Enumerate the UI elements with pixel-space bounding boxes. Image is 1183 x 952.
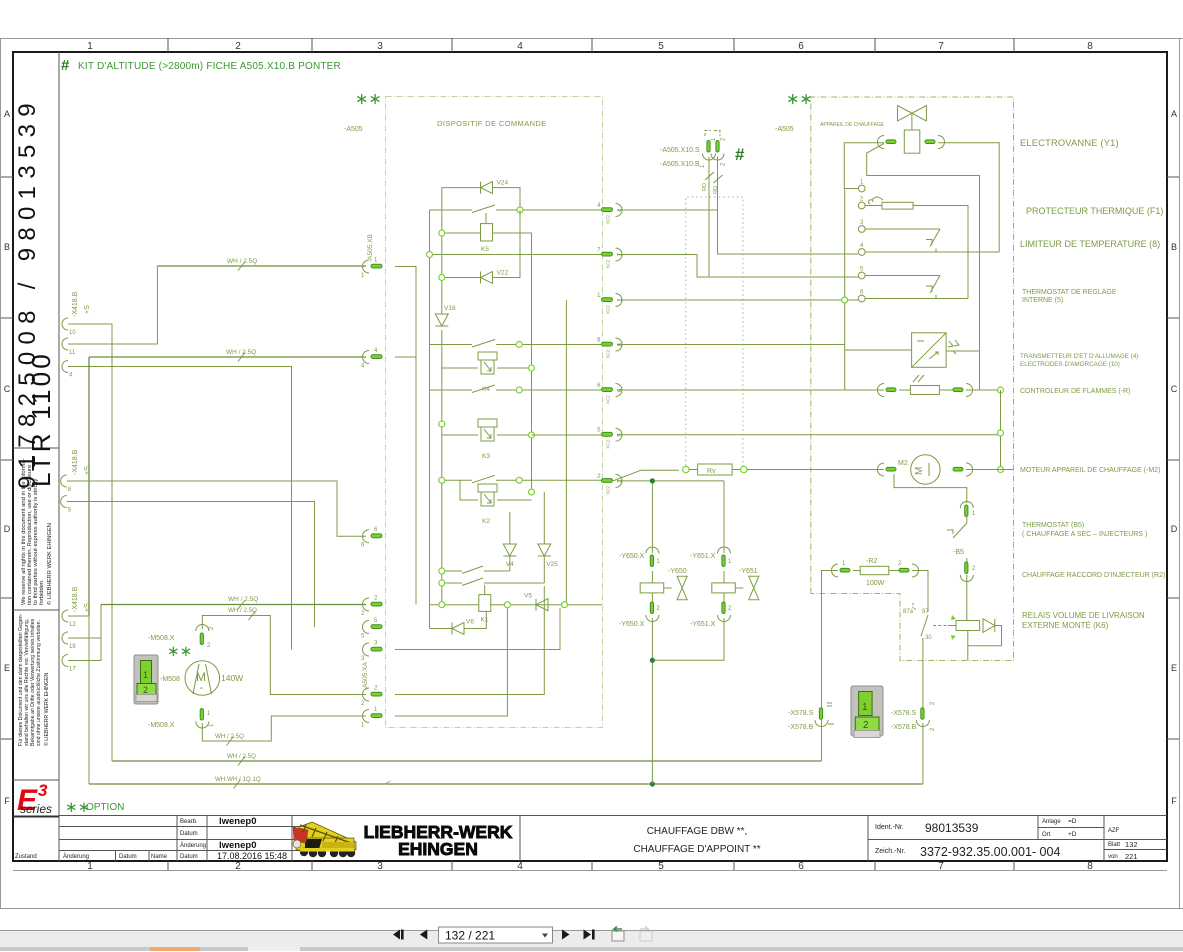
wire M2 to B5 (894, 474, 967, 503)
svg-text:6: 6 (798, 861, 804, 872)
left rail b (441, 188, 443, 605)
flame monitor resistor (878, 375, 973, 397)
svg-text:10: 10 (69, 330, 76, 336)
label RELAIS VOLUME (1022, 611, 1145, 630)
wire K4 right (497, 365, 535, 371)
svg-text:V18: V18 (444, 305, 456, 312)
sheet title (633, 826, 760, 855)
svg-text:1: 1 (87, 41, 93, 52)
relay K6 coil (933, 615, 1002, 661)
svg-text:MOTEUR APPAREIL DE CHAUFFAGE (: MOTEUR APPAREIL DE CHAUFFAGE (-M2) (1020, 467, 1160, 474)
svg-text:V22: V22 (497, 270, 509, 277)
svg-text:1: 1 (87, 861, 93, 872)
wire transmitter left (845, 349, 912, 351)
wire X418.B-10 to bus (68, 324, 112, 761)
control unit box A505 (DISPOSITIF DE COMMANDE) (386, 97, 603, 728)
rail XB1 internal (395, 267, 416, 605)
wire flame monitor out (966, 387, 1004, 393)
wire XC5 to motor rail (617, 434, 1001, 436)
svg-text:Datum: Datum (180, 854, 198, 860)
valve circuit Y650 (619, 484, 687, 785)
svg-text:Datum: Datum (180, 831, 198, 837)
svg-text:WH / 2.5Q: WH / 2.5Q (227, 258, 257, 265)
wire X418.B-12 junction (68, 615, 89, 617)
svg-text:LIMITEUR DE TEMPERATURE (8): LIMITEUR DE TEMPERATURE (8) (1020, 239, 1160, 249)
svg-text:PROTECTEUR THERMIQUE (F1): PROTECTEUR THERMIQUE (F1) (1026, 206, 1163, 216)
connector pin M508.X-2 (196, 625, 215, 649)
svg-text:-R2: -R2 (866, 558, 877, 565)
sidebar column line (13, 52, 59, 861)
sidebar german notice (18, 613, 50, 746)
svg-text:Datum: Datum (119, 854, 137, 860)
svg-text:von: von (1108, 854, 1118, 860)
svg-text:87: 87 (922, 609, 929, 615)
svg-text:-X578.B: -X578.B (891, 724, 917, 731)
svg-text:-A505: -A505 (775, 126, 794, 133)
svg-text:WH / 2.5Q: WH / 2.5Q (226, 349, 256, 356)
jumper plug A505.X10 bracket (705, 131, 720, 137)
svg-text:K5: K5 (481, 246, 489, 253)
svg-text:17: 17 (69, 667, 76, 673)
relay K4 (478, 352, 497, 393)
svg-text:XC2: XC2 (606, 215, 611, 224)
wire X418.B-5 down (67, 502, 315, 628)
fuse F1 squiggle (869, 197, 883, 204)
heater rail (842, 189, 848, 391)
svg-text:Ident.-Nr.: Ident.-Nr. (875, 824, 904, 831)
svg-text:Blatt: Blatt (1108, 842, 1120, 848)
solenoid Y1 (904, 130, 920, 153)
svg-text:6: 6 (798, 41, 804, 52)
svg-text:E: E (1171, 663, 1177, 673)
connector pin M508.X-1 (196, 709, 215, 728)
svg-text:WH / 2.5Q: WH / 2.5Q (215, 733, 244, 740)
wire XA1 internal (395, 608, 507, 716)
junction Y651 return (650, 658, 655, 663)
svg-text:-X418.B: -X418.B (72, 291, 79, 317)
connector pin A505.XA-3 (361, 641, 382, 663)
svg-text:K1: K1 (481, 617, 489, 624)
svg-text:5: 5 (658, 41, 664, 52)
svg-text:CHAUFFAGE DBW **,: CHAUFFAGE DBW **, (647, 826, 748, 837)
connector pin X418.B-11 (62, 338, 76, 356)
left ruler ticks (1, 177, 13, 739)
svg-text:-A505.XA: -A505.XA (362, 662, 369, 690)
diode V25 (538, 492, 558, 583)
connector pin A505.XB-4 (361, 348, 382, 370)
svg-text:V24: V24 (497, 180, 509, 187)
svg-text:V25: V25 (546, 561, 558, 568)
svg-text:∗∗: ∗∗ (167, 643, 192, 660)
wire R2 left to bus (822, 571, 839, 762)
toolbar prev button (420, 930, 428, 940)
svg-text:K3: K3 (482, 453, 490, 460)
svg-text:CONTROLEUR DE FLAMMES (-R): CONTROLEUR DE FLAMMES (-R) (1020, 388, 1130, 395)
bus wire WH.WH/1Q.1Q (89, 776, 923, 789)
pin Y1 right (925, 136, 945, 149)
svg-text:THERMOSTAT (B5): THERMOSTAT (B5) (1022, 522, 1084, 529)
svg-text:F: F (4, 796, 10, 806)
svg-text:-A505: -A505 (344, 126, 363, 133)
svg-text:-Y651: -Y651 (739, 568, 758, 575)
svg-text:Bearb.: Bearb. (180, 819, 198, 825)
wire R2 right to contact (912, 571, 928, 613)
connector pin A505.XA-2a (361, 596, 382, 618)
diode V5 (524, 593, 548, 611)
svg-text:98013539: 98013539 (925, 821, 979, 835)
svg-text:-X578.S: -X578.S (788, 710, 814, 717)
wire XC6 to flame monitor (617, 389, 884, 391)
svg-text:D: D (4, 524, 11, 534)
crane logo (293, 822, 356, 857)
connector pin A505.XC-2 (597, 474, 623, 495)
heater terminal 2 (858, 197, 865, 209)
svg-text:100W: 100W (866, 580, 885, 587)
wire jumper B down with RD slash (713, 157, 723, 211)
svg-text:11: 11 (69, 350, 76, 356)
svg-text:221: 221 (1125, 852, 1138, 861)
sidebar order numbers (14, 96, 41, 489)
svg-text:TRANSMETTEUR D'ET D'ALLUMAGE (: TRANSMETTEUR D'ET D'ALLUMAGE (4) (1020, 353, 1138, 360)
toolbar next button (562, 930, 570, 940)
svg-text:B: B (4, 242, 10, 252)
left rail a (429, 210, 431, 629)
svg-text:Zeich.-Nr.: Zeich.-Nr. (875, 848, 905, 855)
wire XC2 to Rv (613, 470, 679, 481)
sidebar LTR 1100 (26, 351, 56, 487)
svg-text:∗∗: ∗∗ (355, 91, 382, 108)
diode V22 (439, 210, 520, 284)
svg-text:M2: M2 (898, 460, 908, 467)
relay K3 (478, 419, 497, 460)
thermal switch limiteur (926, 229, 940, 252)
wire heater row4 (865, 251, 999, 253)
pdf viewer toolbar (0, 930, 1183, 931)
wire WH/2.5Q to A505.XB-1 (157, 258, 366, 271)
spark electrodes symbol (948, 340, 959, 354)
svg-text:-X418.B: -X418.B (72, 449, 79, 475)
connector pin A505.XC-8 (597, 338, 623, 359)
connector pin X418.B-10 (62, 318, 76, 336)
contact K5 (430, 205, 603, 213)
motor M2 (878, 455, 1014, 484)
diode V24 (442, 180, 520, 210)
svg-text:( CHAUFFAGE A SEC – INJECTEURS: ( CHAUFFAGE A SEC – INJECTEURS ) (1022, 531, 1147, 538)
label TRANSMETTEUR (1020, 353, 1138, 368)
svg-text:∗∗: ∗∗ (786, 91, 813, 108)
ignition transmitter box (912, 333, 947, 368)
svg-text:2: 2 (235, 861, 241, 872)
svg-text:K2: K2 (482, 518, 490, 525)
svg-text:4: 4 (517, 861, 523, 872)
svg-text:3372-932.35.00.001- 004: 3372-932.35.00.001- 004 (920, 845, 1060, 859)
wire XC4 to heater pin4 (617, 210, 858, 254)
svg-text:+D: +D (1068, 831, 1077, 838)
wire K4 left (442, 367, 478, 369)
wire X418.B-12 to bottom bus (88, 616, 90, 784)
svg-text:-A505.X10.B: -A505.X10.B (660, 161, 700, 168)
svg-text:18: 18 (69, 644, 76, 650)
heater terminal 6 (858, 290, 865, 302)
svg-text:B: B (1171, 242, 1177, 252)
svg-text:A: A (1171, 109, 1177, 119)
wire X418.B-18/17 join (68, 605, 101, 661)
svg-text:Änderung: Änderung (63, 853, 89, 860)
svg-text:XC2: XC2 (606, 305, 611, 314)
svg-text:132: 132 (1125, 840, 1138, 849)
wire XC2 straight (617, 478, 724, 483)
svg-text:THERMOSTAT DE REGLAGE: THERMOSTAT DE REGLAGE (1022, 289, 1117, 296)
top valve symbol (898, 106, 927, 131)
jumper pin A505.X10.S-1 (703, 137, 718, 160)
wire heater row6 (865, 252, 968, 299)
coil K5 (481, 224, 493, 253)
svg-text:2: 2 (863, 720, 869, 731)
svg-text:XC2: XC2 (606, 259, 611, 268)
svg-text:C: C (1171, 384, 1178, 394)
pin Y1 left (878, 136, 897, 149)
connector pin A505.XC-5 (597, 428, 623, 449)
link K5 (485, 213, 487, 224)
connector pin A505.XA-5 (361, 618, 382, 640)
heater terminal 3 (858, 220, 865, 232)
svg-text:XC2: XC2 (606, 486, 611, 495)
svg-text:-Y650.X: -Y650.X (619, 621, 645, 628)
wire heater row5 (865, 275, 940, 277)
svg-text:2: 2 (235, 41, 241, 52)
svg-text:V5: V5 (524, 593, 532, 600)
svg-text:30: 30 (925, 635, 932, 641)
svg-text:-A505.X10.S: -A505.X10.S (660, 147, 700, 154)
wire WH/2.5Q M508.X1 to A505.XA-1 (202, 716, 366, 746)
svg-text:Name: Name (151, 854, 168, 860)
wire XC1 drop (565, 300, 567, 602)
svg-text:EHINGEN: EHINGEN (398, 839, 478, 859)
wire XC7 row (427, 252, 603, 258)
svg-text:-M508.X: -M508.X (148, 722, 175, 729)
diode V4 (503, 512, 516, 571)
wire K3 left (439, 421, 478, 435)
svg-text:forbidden.: forbidden. (39, 579, 45, 605)
contact K1b (439, 578, 545, 586)
ident number block (875, 818, 1138, 861)
resistor Rv (683, 464, 884, 475)
wire XC7 to heater pin5 (617, 255, 858, 278)
connector X418.B group1 labels (72, 291, 91, 317)
connector pin X418.B-18 (62, 632, 76, 650)
relay K6 contact (903, 603, 932, 641)
connector pin A505.XA-1 (361, 707, 382, 729)
wire K2 right (497, 489, 535, 500)
svg-text:12: 12 (69, 622, 76, 628)
svg-text:WH / 2.5Q: WH / 2.5Q (227, 753, 256, 760)
contact K4 (430, 340, 603, 348)
wire K3 right (497, 432, 535, 438)
wire XC1 to heater pin6 (617, 297, 858, 303)
link K1 (484, 585, 486, 595)
toolbar next-view icon (disabled) (640, 927, 652, 942)
svg-text:© LIEBHERR WERK EHINGEN: © LIEBHERR WERK EHINGEN (43, 672, 50, 746)
svg-text:-B5: -B5 (953, 549, 964, 556)
svg-text:ELECTROVANNE (Y1): ELECTROVANNE (Y1) (1020, 138, 1119, 148)
right ruler letters (1171, 109, 1178, 806)
connector pin X418.B-17 (62, 655, 76, 673)
wire X578 right to bus (922, 723, 924, 784)
svg-text:-X578.S: -X578.S (891, 710, 917, 717)
svg-text:CHAUFFAGE RACCORD D'INJECTEUR: CHAUFFAGE RACCORD D'INJECTEUR (R2) (1022, 572, 1165, 579)
wire Y1 left loop (844, 143, 979, 351)
svg-text:+S: +S (84, 305, 91, 314)
right ruler ticks (1167, 177, 1179, 739)
svg-text:-M508.X: -M508.X (148, 635, 175, 642)
wire jumper S down with RD slash (702, 157, 714, 278)
connector pin A505.XC-1 (597, 293, 623, 314)
svg-text:5: 5 (658, 861, 664, 872)
wire K5 left (439, 230, 481, 236)
thermal switch thermostat (926, 276, 940, 299)
svg-text:AZF: AZF (1108, 828, 1120, 834)
svg-text:WH.WH / 1Q.1Q: WH.WH / 1Q.1Q (215, 776, 261, 783)
svg-text:series: series (20, 802, 52, 816)
E3 series logo (13, 781, 59, 817)
svg-text:Änderung: Änderung (180, 842, 206, 849)
wire K5 right (493, 233, 532, 492)
sheet note KIT D'ALTITUDE (61, 57, 341, 74)
title block small labels (15, 819, 206, 860)
svg-text:8: 8 (1087, 861, 1093, 872)
wire K1 row (430, 602, 603, 608)
connector X418.B group2 labels (72, 449, 91, 475)
connector pin A505.XA-2b (361, 686, 382, 708)
svg-text:7: 7 (938, 41, 944, 52)
wire WH/2.5Q to A505.XB-4 (89, 349, 366, 616)
svg-text:-X578.B: -X578.B (788, 724, 814, 731)
svg-text:CHAUFFAGE D'APPOINT **: CHAUFFAGE D'APPOINT ** (633, 844, 760, 855)
connector pin X418.B-4 (62, 361, 73, 379)
svg-text:3: 3 (377, 861, 383, 872)
contact K3 (430, 385, 603, 393)
valve circuit Y651 (655, 481, 759, 660)
svg-text:D: D (1171, 524, 1178, 534)
svg-text:APPAREIL DE CHAUFFAGE: APPAREIL DE CHAUFFAGE (820, 122, 885, 128)
wire WH/2.5Q to A505.XA-2 (101, 596, 366, 609)
svg-text:XC2: XC2 (606, 349, 611, 358)
option note (65, 799, 124, 816)
title block grid (59, 815, 1167, 861)
svg-text:ELECTRODES D'AMORCAGE (10): ELECTRODES D'AMORCAGE (10) (1020, 361, 1120, 368)
svg-text:Anlage: Anlage (1042, 819, 1061, 825)
svg-text:V6: V6 (466, 619, 474, 626)
svg-text:KIT D'ALTITUDE (>2800m) FICHE: KIT D'ALTITUDE (>2800m) FICHE A505.X10.B… (78, 61, 341, 72)
svg-text:#: # (735, 145, 745, 164)
sidebar english notice (21, 458, 53, 605)
svg-text:EXTERNE MONTÉ (K6): EXTERNE MONTÉ (K6) (1022, 621, 1109, 630)
wire XC5 row (532, 434, 603, 436)
svg-text:17.08.2016 15:48: 17.08.2016 15:48 (217, 851, 287, 861)
connector pin X578.S right (891, 701, 936, 731)
svg-text:DISPOSITIF DE COMMANDE: DISPOSITIF DE COMMANDE (437, 119, 547, 128)
svg-text:sind ohne unsere ausdrückliche: sind ohne unsere ausdrückliche Zustimmun… (36, 620, 42, 746)
svg-text:4: 4 (517, 41, 523, 52)
svg-text:© LIEBHERR WERK EHINGEN: © LIEBHERR WERK EHINGEN (46, 523, 53, 605)
toolbar page combo (439, 927, 553, 943)
heater terminal 1 (858, 180, 865, 192)
svg-text:XC2: XC2 (606, 439, 611, 448)
wire X418.B-8 to A505.XA-6 (67, 481, 366, 536)
svg-text:-A505.XB: -A505.XB (367, 234, 374, 262)
dotted harness box RD wires (686, 197, 743, 470)
connector image M508.X (134, 655, 158, 704)
wire X418.B-4 down (68, 367, 292, 650)
svg-text:-Y651.X: -Y651.X (690, 553, 716, 560)
svg-text:-Y650.X: -Y650.X (619, 553, 645, 560)
svg-text:+S: +S (84, 603, 91, 612)
svg-text:-X418.B: -X418.B (72, 586, 79, 612)
junction bus (650, 781, 655, 786)
svg-text:3: 3 (38, 781, 48, 800)
svg-text:F: F (1171, 796, 1177, 806)
svg-text:M: M (914, 467, 925, 475)
svg-text:-Y651.X: -Y651.X (690, 621, 716, 628)
jumper pin A505.X10.B-2 (700, 137, 727, 168)
toolbar last-page button (584, 930, 595, 940)
connector pin A505.XC-7 (597, 248, 623, 269)
heater terminal 4 (858, 243, 865, 255)
svg-text:lwenep0: lwenep0 (219, 816, 257, 827)
svg-text:=D: =D (1068, 818, 1077, 825)
svg-text:+S: +S (84, 466, 91, 475)
diode V18 (435, 305, 456, 326)
wire X578 right from K6 (922, 640, 924, 708)
wire XA3 internal (395, 608, 560, 650)
svg-text:-: - (200, 682, 204, 694)
contact K1a (439, 566, 510, 574)
svg-text:-Y650: -Y650 (668, 568, 687, 575)
toolbar previous-view icon (612, 927, 624, 942)
wire X418.B-11 up to WH wire (68, 266, 157, 344)
svg-text:XC2: XC2 (606, 395, 611, 404)
svg-text:7: 7 (938, 861, 944, 872)
connector pin A505.XC-6 (597, 383, 623, 404)
svg-text:#: # (61, 57, 70, 74)
svg-text:E: E (4, 663, 10, 673)
svg-text:1: 1 (862, 702, 868, 713)
svg-text:87a: 87a (903, 609, 914, 615)
svg-text:WH / 2.5Q: WH / 2.5Q (228, 596, 258, 603)
diode V6 (430, 611, 487, 634)
svg-text:lwenep0: lwenep0 (219, 840, 257, 851)
top ruler numbers (87, 41, 1093, 52)
motor M508 (185, 661, 220, 696)
resistor R2 (832, 558, 919, 587)
title block values (217, 816, 287, 861)
top ruler ticks (168, 38, 1014, 52)
coil K1 (479, 595, 491, 624)
heater box (APPAREIL DE CHAUFFAGE) (811, 97, 1014, 661)
connector pin A505.XB-1 (361, 258, 382, 280)
connector pin X418.B-12 (62, 610, 76, 628)
connector image X578 (851, 686, 883, 738)
svg-text:A: A (4, 109, 10, 119)
wire WH/2.5Q M508.X2 to A505.XA-2b (202, 607, 366, 695)
connector X418.B group3 labels (72, 586, 91, 612)
wire transmitter right (946, 351, 979, 390)
svg-text:RELAIS VOLUME DE LIVRAISON: RELAIS VOLUME DE LIVRAISON (1022, 611, 1145, 620)
motor feed rail (998, 390, 1004, 473)
svg-text:Ort: Ort (1042, 832, 1051, 838)
bottom ruler numbers (87, 861, 1093, 872)
thermostat B5 (947, 502, 976, 621)
